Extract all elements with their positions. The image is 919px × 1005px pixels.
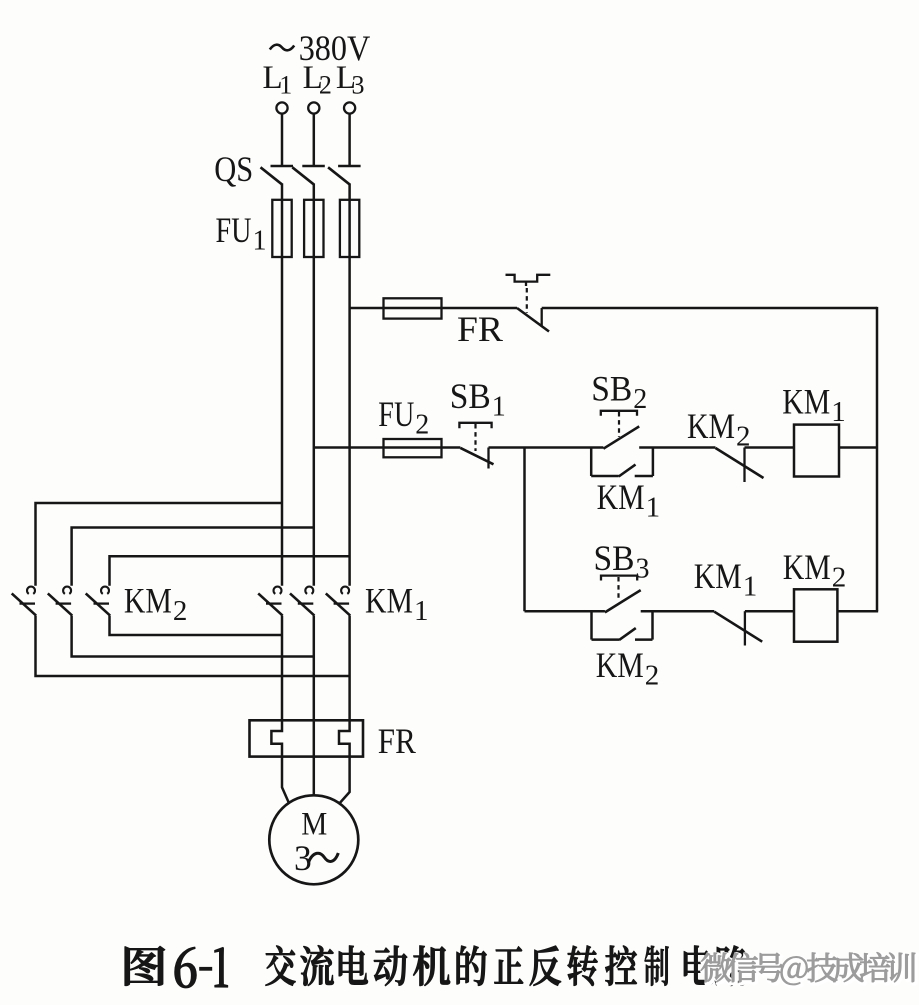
QS pole 1 fixed bar: [271, 165, 294, 167]
wire rung2 left: [525, 610, 605, 613]
coil KM1: [794, 425, 839, 477]
wire KM1 pole 2 down: [313, 616, 316, 721]
SB3 actuator dashed link: [617, 577, 619, 601]
wire coil KM2 to rail: [837, 610, 878, 613]
wire FR to motor phase3: [340, 757, 350, 803]
thermal relay FR release symbol: [506, 275, 551, 282]
latch KM2 bottom left segment: [592, 638, 620, 641]
wire FR to motor phase1: [282, 757, 289, 803]
KM2 main contact pole 2: [63, 587, 71, 594]
SB1 contact post: [487, 448, 489, 469]
KM1 main contact pole 3: [341, 587, 349, 594]
svg-text:3: 3: [352, 71, 365, 100]
FR contact post: [541, 308, 543, 327]
wire bottom swap 3 (KM2 pole3 to phase1): [110, 616, 283, 635]
svg-text:FR: FR: [457, 309, 503, 349]
QS pole 3 blade: [328, 167, 350, 185]
wire row2 from phase2: [314, 446, 461, 449]
wire coil KM1 to rail: [839, 446, 877, 449]
latch contact KM1 (NO) blade: [619, 465, 636, 477]
latch KM1 bottom right segment: [635, 475, 653, 478]
wire KM1 to coil KM2: [745, 610, 794, 613]
svg-text:1: 1: [279, 71, 292, 100]
latch contact KM2 aux left drop: [590, 611, 593, 639]
fuse FU2: [384, 439, 442, 457]
QS pole 2 blade: [292, 167, 314, 185]
latch contact KM1 aux left drop: [590, 448, 593, 477]
wire KM1 pole 3 down: [348, 616, 351, 721]
wire QS pole 2 to FU1: [313, 184, 316, 201]
wire FR row left: [350, 307, 517, 310]
coil KM2: [794, 589, 837, 641]
wire bottom swap 2 (KM2 pole2 to phase2): [72, 616, 314, 657]
thermal relay FR heater box: [250, 720, 364, 756]
branch vertical wire: [523, 448, 526, 612]
FR contact actuator dashed link: [526, 288, 528, 313]
label ~380V: [270, 45, 294, 51]
FR heater phase2 straight: [313, 720, 316, 756]
wire top swap 2 (phase2 to KM2 pole2): [72, 528, 314, 586]
right rail vertical: [876, 307, 879, 611]
wire L1 to QS: [281, 114, 284, 166]
interlock contact KM1 blade: [714, 612, 762, 642]
wire KM2 to coil KM1: [745, 446, 795, 449]
wire QS pole 3 to FU1: [348, 184, 351, 201]
wire FR to motor phase2: [313, 757, 316, 796]
FR heater jog phase1: [271, 720, 282, 756]
wire SB2 right stub: [639, 446, 715, 449]
fuse FU2a (upper control fuse): [384, 298, 442, 318]
latch contact KM1 aux right drop: [652, 448, 655, 477]
interlock contact KM2 blade: [716, 448, 764, 478]
interlock KM1 post: [744, 611, 746, 645]
KM1 main contact pole 2: [305, 587, 313, 594]
SB1 actuator dashed link: [474, 424, 476, 451]
wire QS pole 1 to FU1: [281, 184, 284, 201]
fuse FU1 pole 3: [340, 200, 359, 257]
QS pole 2 fixed bar: [302, 165, 325, 167]
motor M circle: [269, 795, 358, 884]
latch contact KM2 (NO) blade: [619, 628, 636, 640]
thermal relay contact FR (NC) blade: [517, 308, 549, 332]
caption 图 6-1: [125, 946, 165, 985]
wire top swap 1 (phase1 to KM2 pole1): [36, 503, 283, 586]
wire KM1 pole 1 down: [281, 616, 284, 721]
wire phase 2 vertical: [313, 200, 316, 586]
latch KM2 bottom right segment: [635, 638, 653, 641]
wire top swap 3 (phase3 to KM2 pole3): [110, 556, 350, 586]
wire bottom swap 1 (KM2 pole1 to phase3): [36, 616, 350, 676]
QS pole 1 blade: [261, 167, 283, 185]
svg-text:QS: QS: [214, 149, 253, 189]
wire L2 to QS: [313, 114, 316, 166]
fuse FU1 pole 1: [272, 200, 291, 257]
stop button SB1 (NC) blade: [460, 448, 493, 464]
KM2 main contact pole 3: [101, 587, 109, 594]
SB3 button cap: [601, 576, 637, 581]
KM2 main contact pole 1: [27, 587, 35, 594]
caption title text: [265, 946, 295, 986]
svg-text:2: 2: [319, 71, 332, 100]
SB1 button cap: [459, 423, 491, 429]
interlock KM2 post: [743, 448, 745, 483]
fuse FU1 pole 2: [304, 200, 323, 257]
SB2 actuator dashed link: [618, 412, 620, 437]
SB2 button cap: [601, 411, 637, 416]
watermark 微信号@技成培训: [702, 954, 732, 983]
svg-text:FR: FR: [378, 721, 416, 761]
wire FR row right: [542, 307, 877, 310]
wire SB3 right stub: [641, 610, 715, 613]
wire row2 SB1 to SB2: [489, 446, 604, 449]
QS pole 3 fixed bar: [338, 165, 361, 167]
latch KM1 bottom left segment: [591, 475, 619, 478]
FR heater jog phase3: [339, 720, 350, 756]
wire phase 1 vertical: [281, 200, 284, 586]
start button SB2 (NO) blade: [603, 426, 639, 448]
latch contact KM2 aux right drop: [651, 611, 654, 639]
wire L3 to QS: [348, 114, 351, 166]
start button SB3 (NO) blade: [605, 590, 641, 612]
KM1 main contact pole 1: [274, 587, 282, 594]
wire phase 3 vertical: [348, 200, 351, 586]
